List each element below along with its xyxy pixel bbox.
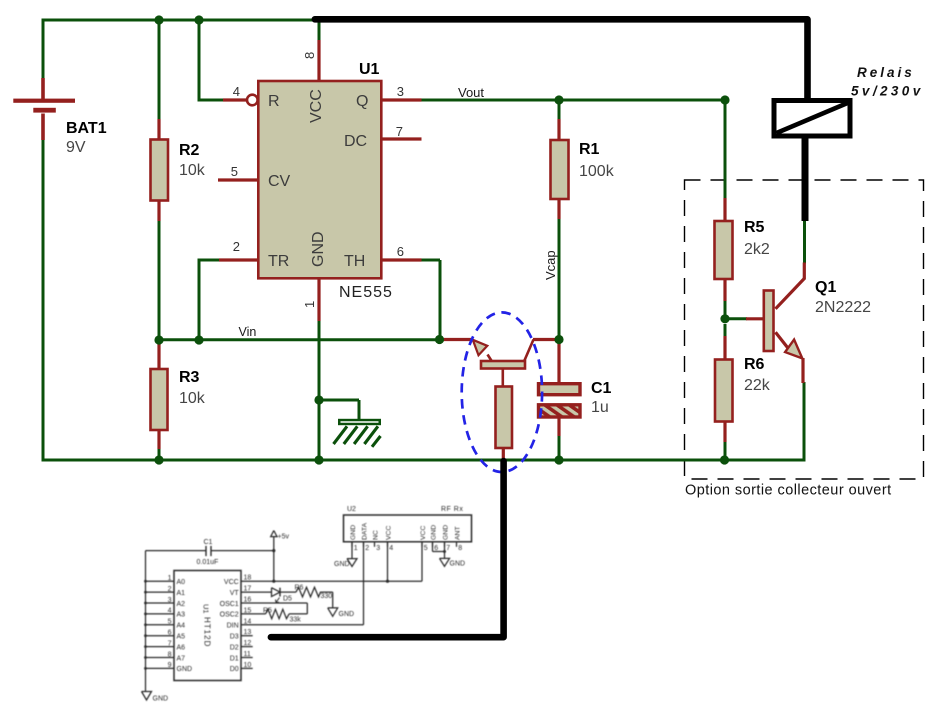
svg-text:A5: A5 [177,634,186,641]
svg-text:1u: 1u [591,399,609,416]
svg-text:R5: R5 [744,219,765,236]
svg-text:1: 1 [354,545,358,552]
svg-text:GND: GND [430,525,437,540]
svg-text:3: 3 [397,84,404,99]
svg-text:U1: U1 [202,604,211,614]
svg-text:3: 3 [376,545,380,552]
svg-text:7: 7 [446,545,450,552]
svg-text:5: 5 [231,164,238,179]
svg-text:10k: 10k [179,390,206,407]
svg-text:GND: GND [450,561,466,568]
svg-text:Q: Q [356,93,368,110]
svg-text:TH: TH [344,253,365,270]
svg-text:BAT1: BAT1 [66,120,107,137]
svg-text:Vout: Vout [458,85,484,100]
svg-text:GND: GND [339,611,355,618]
svg-text:U2: U2 [347,506,356,513]
svg-text:A7: A7 [177,655,186,662]
svg-text:R5: R5 [263,608,272,615]
svg-text:4: 4 [233,84,240,99]
svg-text:D0: D0 [230,666,239,673]
svg-text:R6: R6 [744,356,765,373]
svg-text:GND: GND [153,696,169,703]
svg-text:100k: 100k [579,163,615,180]
svg-text:NC: NC [372,530,379,540]
svg-text:CV: CV [268,173,291,190]
svg-text:OSC1: OSC1 [220,601,239,608]
svg-text:4: 4 [389,545,393,552]
svg-text:6: 6 [168,630,172,637]
svg-text:C1: C1 [204,539,213,546]
svg-text:A1: A1 [177,590,186,597]
svg-text:+5v: +5v [278,534,290,541]
svg-text:1: 1 [168,575,172,582]
svg-text:R2: R2 [179,142,200,159]
svg-text:8: 8 [302,52,317,59]
svg-text:A2: A2 [177,601,186,608]
svg-text:GND: GND [310,231,327,267]
svg-text:VT: VT [230,590,240,597]
svg-text:22k: 22k [744,377,771,394]
svg-text:DATA: DATA [361,522,368,540]
svg-text:5v/230v: 5v/230v [851,84,924,99]
svg-text:2: 2 [233,239,240,254]
svg-text:OSC2: OSC2 [220,612,239,619]
svg-text:VCC: VCC [420,526,427,540]
svg-text:D1: D1 [230,655,239,662]
svg-text:DC: DC [344,133,367,150]
svg-text:D3: D3 [230,634,239,641]
svg-text:A6: A6 [177,644,186,651]
svg-text:9: 9 [168,662,172,669]
svg-text:C1: C1 [591,380,612,397]
svg-text:10k: 10k [179,162,206,179]
svg-text:Option sortie collecteur ouver: Option sortie collecteur ouvert [685,483,892,499]
svg-text:4: 4 [168,608,172,615]
svg-text:330: 330 [321,593,333,600]
svg-text:5: 5 [424,545,428,552]
svg-text:VCC: VCC [224,579,239,586]
svg-text:8: 8 [168,651,172,658]
svg-text:D5: D5 [283,596,292,603]
svg-text:2: 2 [365,545,369,552]
svg-text:GND: GND [442,525,449,540]
svg-text:1: 1 [302,301,317,308]
svg-text:VCC: VCC [385,526,392,540]
svg-text:3: 3 [168,597,172,604]
svg-text:Vin: Vin [239,325,257,339]
svg-text:GND: GND [334,561,350,568]
svg-text:5: 5 [168,619,172,626]
svg-text:2N2222: 2N2222 [815,299,871,316]
svg-text:0.01uF: 0.01uF [197,559,219,566]
svg-text:D2: D2 [230,644,239,651]
svg-text:ANT: ANT [454,526,461,540]
svg-text:VCC: VCC [308,89,325,123]
svg-text:7: 7 [396,124,403,139]
svg-text:Q1: Q1 [815,279,836,296]
svg-text:Relais: Relais [857,65,915,80]
svg-text:R3: R3 [179,369,200,386]
svg-text:GND: GND [350,525,357,540]
svg-text:NE555: NE555 [339,284,393,301]
svg-text:R1: R1 [579,141,600,158]
svg-text:2: 2 [168,586,172,593]
svg-text:2k2: 2k2 [744,241,770,258]
svg-text:GND: GND [177,666,193,673]
svg-text:9V: 9V [66,139,86,156]
svg-text:TR: TR [268,253,289,270]
svg-text:6: 6 [397,244,404,259]
svg-text:Vcap: Vcap [543,250,558,280]
svg-text:A0: A0 [177,579,186,586]
svg-text:R: R [268,93,280,110]
svg-text:R6: R6 [295,585,304,592]
svg-text:A3: A3 [177,612,186,619]
svg-text:7: 7 [168,640,172,647]
svg-text:HT12D: HT12D [203,617,212,647]
svg-text:U1: U1 [359,61,380,78]
svg-text:A4: A4 [177,623,186,630]
svg-text:33k: 33k [290,617,302,624]
svg-text:RF Rx: RF Rx [441,506,463,513]
svg-text:8: 8 [458,545,462,552]
svg-text:DIN: DIN [227,623,239,630]
